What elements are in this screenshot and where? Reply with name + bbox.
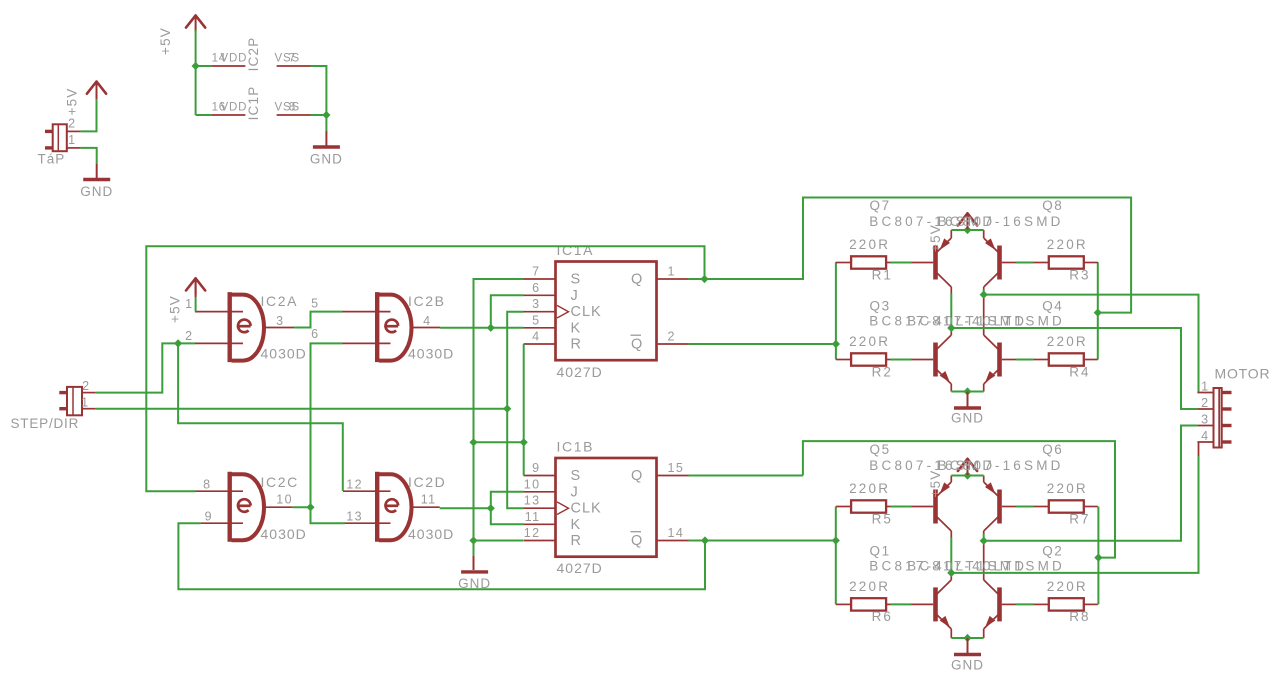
wire VSS row1 to GND corner [311,66,327,115]
connector STEP/DIR [67,387,82,415]
svg-text:J: J [571,288,579,304]
resistor R2 220R [851,353,886,365]
svg-text:2: 2 [68,117,76,131]
wire phase A- (Q7/Q3) to MOTOR.2 [951,328,1197,409]
svg-text:3: 3 [276,314,284,328]
wire Qbar14 feedback to IC2C.9 [178,523,705,589]
wire IC2A.3 to IC2B.5 [294,312,343,328]
IC2A output stub pin3 [264,327,295,329]
svg-text:220R: 220R [849,334,890,349]
junction STEP on CLK vertical [503,405,511,413]
ground GND middle [461,570,488,573]
svg-text:VSS: VSS [275,102,300,114]
svg-text:BC817-40LT1SMD: BC817-40LT1SMD [907,558,1065,573]
wire TáP pin2 to +5V [81,99,97,131]
resistor R5 220R [851,500,886,512]
svg-text:220R: 220R [1047,334,1088,349]
svg-text:VDD: VDD [221,53,248,65]
wire R1/R2 left vertical [835,262,837,359]
wire IC2C.10 to vertical [293,506,311,508]
svg-text:K: K [571,320,582,336]
STEP/DIR pin 2 stub [82,392,96,394]
junction VDD row1 [192,62,200,70]
wire DIR to IC2D.12 [178,343,343,491]
svg-text:Q: Q [631,533,643,549]
svg-text:Q: Q [631,272,643,288]
svg-text:11: 11 [525,510,541,524]
wire to GND P2 [325,115,327,131]
svg-text:3: 3 [1201,413,1209,427]
svg-text:IC1P: IC1P [246,86,261,121]
TáP pin 1 stub [67,147,81,149]
svg-text:6: 6 [311,327,319,341]
svg-text:1: 1 [668,265,676,279]
svg-text:220R: 220R [849,237,890,252]
svg-text:+5V: +5V [928,470,943,498]
svg-text:Q6: Q6 [1042,442,1063,457]
wire R3/R4 right vertical [1097,262,1099,359]
svg-text:R4: R4 [1069,364,1090,379]
svg-text:IC2P: IC2P [246,37,261,72]
svg-text:VSS: VSS [275,53,300,65]
svg-text:IC2C: IC2C [261,474,299,490]
MOTOR pin 2 prong [1223,407,1232,410]
svg-text:IC2D: IC2D [408,474,446,490]
svg-text:Q4: Q4 [1042,299,1063,314]
TáP pin 2 prong [45,130,52,133]
svg-text:+5V: +5V [158,27,173,55]
svg-text:220R: 220R [849,579,890,594]
svg-text:6: 6 [532,281,540,295]
junction SR net lower [469,536,477,544]
svg-text:BC807-16SMD: BC807-16SMD [938,458,1064,473]
svg-text:3: 3 [532,297,540,311]
wire +5V to IC2A.1 [195,279,197,297]
+5V symbol at IC2A.1 [186,278,205,290]
junction Qbar2 at R1/R2 [832,340,840,348]
IC2C output stub pin10 [264,506,293,508]
svg-text:R7: R7 [1069,511,1090,526]
svg-text:2: 2 [185,329,193,343]
gate IC2A (4030D XOR) [227,292,231,362]
svg-text:220R: 220R [1047,237,1088,252]
svg-text:Q5: Q5 [870,442,891,457]
svg-text:BC807-16SMD: BC807-16SMD [938,214,1064,229]
gate IC2C (4030D XOR) [227,472,231,542]
svg-text:7: 7 [532,265,540,279]
svg-text:Q: Q [631,337,643,353]
wire collector right vertical [983,287,985,290]
svg-text:13: 13 [346,510,363,524]
junction IC2C out [306,503,314,511]
junction +5V emitters [963,226,971,234]
connector MOTOR [1214,388,1222,448]
MOTOR pin 4 stub [1197,441,1213,443]
svg-text:GND: GND [310,152,343,167]
svg-text:1: 1 [81,395,89,409]
IC2B pin6 line [343,342,391,344]
svg-text:IC1A: IC1A [557,242,595,258]
STEP/DIR pin 1 stub [82,408,96,410]
MOTOR pin 4 prong [1223,440,1232,443]
wire R5/R6 left vertical [835,507,837,605]
wire emitters to GND [950,629,952,638]
svg-text:+5V: +5V [168,295,183,323]
svg-text:5: 5 [532,313,540,327]
wire phase B- (Q5/Q1) to MOTOR.4 [951,456,1198,573]
wire J branch IC1B [491,492,524,508]
wire vertical to IC2D.13 [311,508,346,523]
svg-text:TáP: TáP [38,152,66,167]
junction DIR at IC2A.2 [174,339,182,347]
+5V symbol P1 [87,82,106,94]
wire collector left vertical [950,531,952,538]
svg-text:4027D: 4027D [557,560,603,576]
junction GND emitters [963,387,971,395]
resistor R3 220R [1049,256,1084,268]
svg-text:CLK: CLK [571,501,602,517]
svg-text:BC817-40LT1SMD: BC817-40LT1SMD [907,314,1065,329]
wire R left leads [836,506,851,508]
junction GND emitters [963,634,971,642]
svg-text:R1: R1 [872,267,893,282]
wire Qbar14 to R5/R6 [705,540,836,542]
STEP/DIR pin 2 prong [59,391,66,394]
wire emitters to GND [950,384,952,392]
svg-text:Q1: Q1 [870,543,891,558]
wire DIR net: pin2 up to IC2A.2 [96,343,178,392]
IC2B pin5 line [343,311,391,313]
transistor Q1 NPN [933,587,938,621]
svg-text:5: 5 [311,297,319,311]
svg-text:15: 15 [668,461,685,475]
pin IC2P VSS stub [277,65,311,67]
wire emitters to +5V [950,230,952,238]
junction J/K IC1A [487,324,495,332]
wire Qbar14 net from IC1B.Qbar [689,540,706,542]
transistor Q7 PNP [933,246,938,280]
svg-text:IC2B: IC2B [408,293,446,309]
svg-text:CLK: CLK [571,304,602,320]
svg-text:STEP/DIR: STEP/DIR [11,416,80,431]
MOTOR pin 2 stub [1197,408,1213,410]
svg-text:1: 1 [68,133,76,147]
svg-text:4: 4 [1201,429,1209,443]
wire Q15 top rail to R7/R8 [803,441,1115,557]
svg-text:4027D: 4027D [557,364,603,380]
+5V symbol bridge [958,213,977,225]
+5V symbol P2 [186,15,205,27]
wire net XOR2out: IC2D.11 to IC1B J/K [440,507,491,509]
svg-text:R2: R2 [872,364,893,379]
svg-text:IC2A: IC2A [261,293,299,309]
wire Q1 feedback to IC2C.8 [146,246,704,491]
svg-text:220R: 220R [1047,481,1088,496]
gate IC2B (4030D XOR) [375,292,379,362]
junction VSS GND [322,111,330,119]
transistor Q3 NPN [933,343,938,377]
ground GND P1 [83,178,110,181]
svg-text:R8: R8 [1069,609,1090,624]
pin IC2P VDD stub [212,65,246,67]
+5V symbol bridge [958,459,977,471]
resistor R1 220R [851,256,886,268]
junction R4 vertical [520,438,528,446]
junction Q1 at R3/R4 [1094,309,1102,317]
junction Qbar14 at R5/R6 [832,536,840,544]
junction phase left [947,324,955,332]
pin IC1P VSS stub [277,114,311,116]
MOTOR pin 1 prong [1223,391,1232,394]
svg-text:GND: GND [951,658,984,673]
svg-text:Q: Q [631,468,643,484]
junction phase right [980,291,988,299]
junction phase left [947,569,955,577]
MOTOR pin 3 stub [1197,425,1213,427]
transistor Q4 NPN [997,343,1002,377]
svg-text:13: 13 [524,494,541,508]
IC2B output stub pin4 [411,327,440,329]
svg-text:4030D: 4030D [261,526,307,542]
IC2D output stub pin11 [411,506,440,508]
wire TáP pin1 to GND [81,148,97,164]
svg-text:R: R [571,337,582,353]
svg-text:R3: R3 [1069,267,1090,282]
svg-text:GND: GND [951,411,984,426]
gate IC2D (4030D XOR) [375,472,379,542]
wire to GND middle [473,556,475,570]
wire Q15 net from IC1B.Q [689,475,803,477]
transistor Q6 PNP [997,490,1002,524]
wire IC1A.R to IC1B.S vertical [523,344,525,476]
junction +5V emitters [963,471,971,479]
J-K flip-flop IC1A (4027D) [556,262,657,361]
svg-text:R: R [571,533,582,549]
transistor Q8 PNP [997,246,1002,280]
svg-text:MOTOR: MOTOR [1215,366,1271,382]
STEP/DIR pin 1 prong [59,407,66,410]
junction Qbar14 [701,536,709,544]
connector TáP (power header) [53,124,67,151]
J-K flip-flop IC1B (4027D) [556,458,657,557]
svg-text:Q8: Q8 [1042,198,1063,213]
svg-text:9: 9 [532,461,540,475]
svg-text:11: 11 [421,493,437,507]
svg-text:Q7: Q7 [870,198,891,213]
wire S/R ground net: IC1A.S down to GND [474,279,524,556]
svg-text:R5: R5 [872,511,893,526]
svg-text:IC1B: IC1B [557,439,595,455]
wire +5V vert to row2 [195,66,197,115]
junction Q1 [700,275,708,283]
resistor R4 220R [1049,353,1084,365]
svg-text:2: 2 [668,330,676,344]
wire net XOR1out: IC2B.4 to IC1A J/K [440,327,524,329]
svg-text:8: 8 [203,478,211,492]
wire VSS row2 [311,114,327,116]
wire collector left vertical [950,287,952,294]
IC2D pin13 line [344,522,391,524]
ground GND bridge [954,653,981,656]
wire IC2A.2 green lead [178,342,195,344]
resistor R6 220R [851,598,886,610]
TáP pin 2 stub [67,130,81,132]
transistor Q5 PNP [933,490,938,524]
pin IC1P VDD stub [212,114,246,116]
wire VDD row2 [196,114,212,116]
svg-text:220R: 220R [1047,579,1088,594]
svg-text:9: 9 [205,510,213,524]
svg-text:S: S [571,272,582,288]
transistor Q2 NPN [997,587,1002,621]
svg-text:4: 4 [423,314,431,328]
junction SR net upper [469,438,477,446]
wire emitters to +5V [950,476,952,483]
IC2C pin8 line [196,490,244,492]
junction J/K IC1B [487,504,495,512]
MOTOR pin 3 prong [1223,424,1232,427]
svg-text:2: 2 [82,379,90,393]
wire CLK net vertical [507,312,524,509]
wire STEP net: pin1 to CLK vertical [96,408,507,410]
svg-text:12: 12 [524,526,541,540]
svg-text:10: 10 [524,477,541,491]
svg-text:Q3: Q3 [870,299,891,314]
svg-text:4: 4 [532,330,540,344]
svg-text:K: K [571,517,582,533]
resistor R7 220R [1049,500,1084,512]
svg-text:12: 12 [346,478,363,492]
ground GND P2 [313,145,340,148]
svg-text:J: J [571,484,579,500]
wire Qbar2 net from IC1A.Qbar [689,343,836,345]
IC2C pin9 line [201,522,243,524]
wire SR crossbar [474,441,524,443]
wire phase A+ (Q8/Q4) to MOTOR.1 [984,295,1199,393]
IC2A pin2 line [195,342,243,344]
MOTOR pin 1 stub [1197,392,1213,394]
wire collector right vertical [983,531,985,534]
IC2D pin12 line [343,490,391,492]
svg-text:10: 10 [276,493,293,507]
wire R7/R8 right vertical [1097,507,1099,605]
resistor R8 220R [1049,598,1084,610]
wire IC2B.6 to lower xor output net [311,343,343,507]
svg-text:7: 7 [289,53,296,65]
IC2A pin1 line [195,311,243,313]
junction phase right [980,537,988,545]
junction Q15 at R7/R8 [1094,554,1102,562]
svg-text:GND: GND [80,184,113,199]
svg-text:2: 2 [1201,396,1209,410]
svg-text:1: 1 [1201,380,1209,394]
svg-text:Q2: Q2 [1042,543,1063,558]
svg-text:4030D: 4030D [408,526,454,542]
svg-text:+5V: +5V [65,88,80,116]
svg-text:S: S [571,468,582,484]
wire J branch IC1A [491,295,524,328]
svg-text:8: 8 [289,102,296,114]
wire VDD row1 [196,65,212,67]
wire R left leads [836,262,851,264]
svg-text:220R: 220R [849,481,890,496]
svg-text:4030D: 4030D [408,346,454,362]
wire Q1 net from IC1A.Q [688,278,704,280]
svg-text:14: 14 [668,526,685,540]
wire Q1 to top rail [705,198,1132,313]
svg-text:1: 1 [185,297,193,311]
wire K branch IC1B [491,508,524,524]
svg-text:R6: R6 [872,609,893,624]
svg-text:VDD: VDD [221,102,248,114]
TáP pin 1 prong [45,146,52,149]
wire R12 branch [474,540,524,542]
wire phase B+ (Q6/Q2) to MOTOR.3 [984,426,1198,541]
svg-text:4030D: 4030D [261,346,307,362]
wire +5V to VDD pins [195,30,197,66]
ground GND bridge [954,406,981,409]
